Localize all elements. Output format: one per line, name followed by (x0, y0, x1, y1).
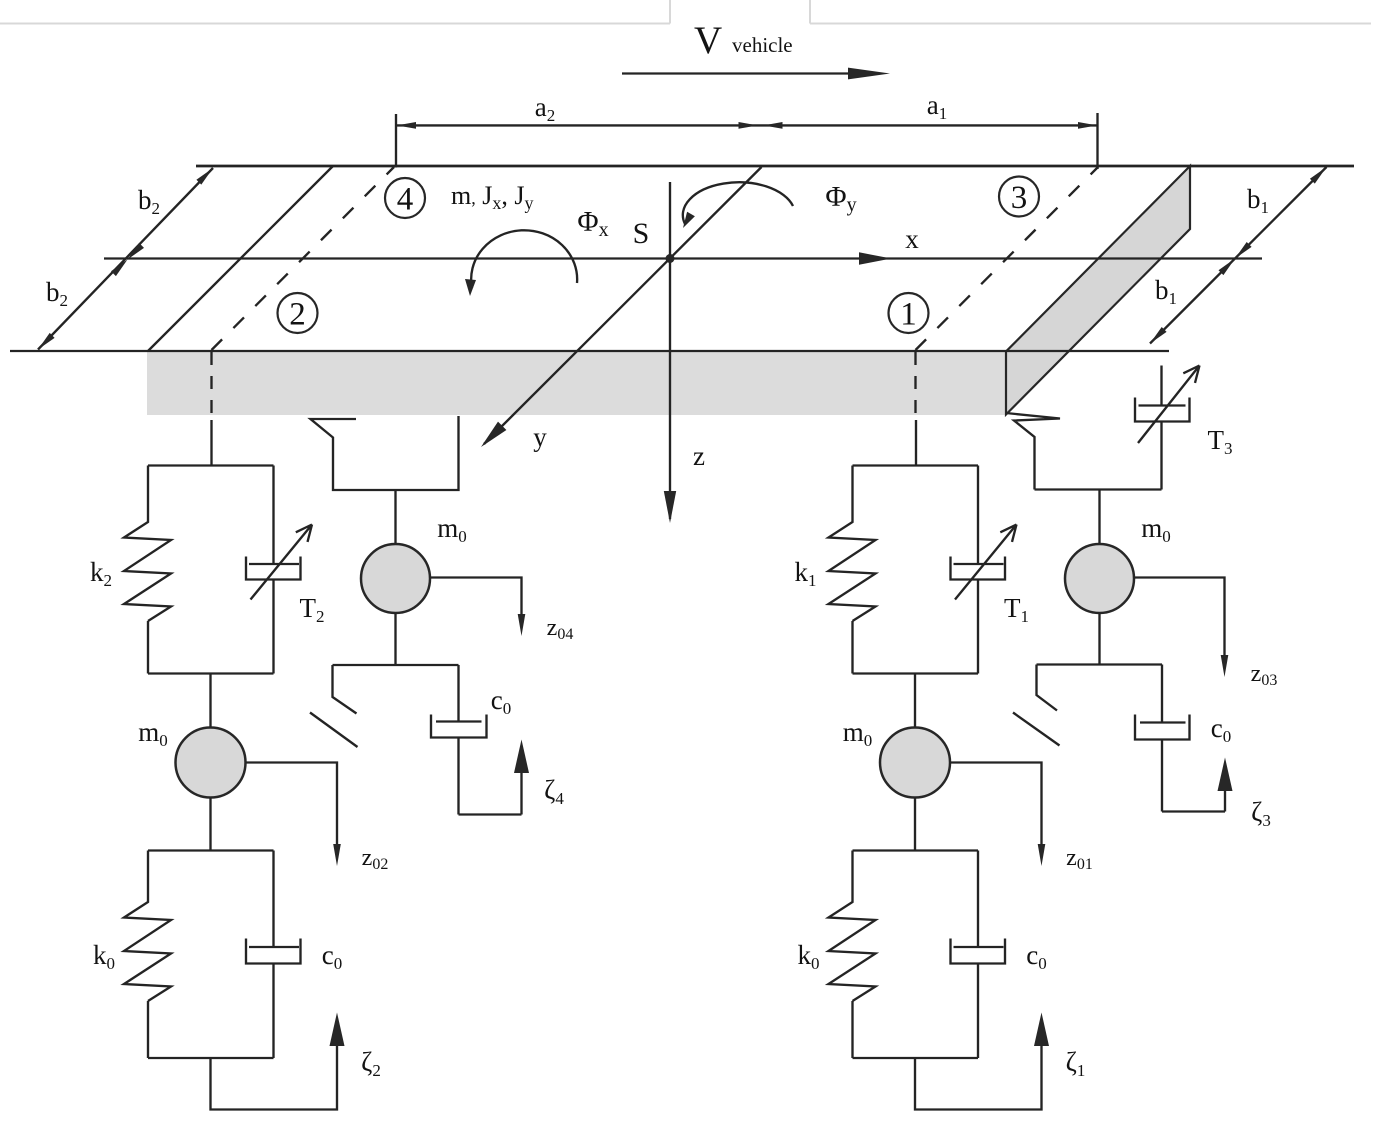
svg-text:k0: k0 (93, 940, 115, 973)
svg-text:z03: z03 (1251, 661, 1278, 689)
wheel 3 wire mass to tire assembly (1098, 613, 1100, 665)
svg-text:m0: m0 (437, 513, 467, 546)
node S (center of mass) (633, 217, 675, 263)
spring k2 (124, 466, 171, 622)
wheel position circle 3 (999, 177, 1039, 217)
svg-text:c0: c0 (1211, 713, 1231, 746)
wheel 1 wire mass to lower box (914, 798, 916, 851)
wheel 1 lower box frame (853, 851, 979, 1059)
svg-text:a1: a1 (927, 90, 947, 123)
mass m0 (wheel 4) (361, 513, 467, 613)
velocity arrow (622, 68, 890, 80)
wheel 2 upper box frame (148, 466, 274, 674)
svg-text:z01: z01 (1066, 845, 1093, 873)
damper c0 (wheel 1) (951, 851, 1047, 1059)
svg-text:ζ3: ζ3 (1251, 797, 1271, 830)
svg-text:y: y (533, 422, 547, 452)
plate bottom edge (10, 350, 1169, 352)
label T3 (1208, 425, 1233, 458)
spring k0 (wheel 2) (124, 851, 171, 1002)
damper c0 (wheel 4) (431, 665, 511, 815)
svg-text:T1: T1 (1004, 593, 1029, 626)
svg-text:z04: z04 (547, 615, 574, 643)
dimension b1 (1150, 167, 1327, 344)
svg-text:vehicle: vehicle (732, 33, 793, 57)
wheel 4 road break symbol (310, 665, 358, 747)
rotation arc phi-x (465, 206, 609, 296)
plate middle line (x axis line) (104, 257, 1262, 259)
wheel 2 wire mass to lower box (209, 798, 211, 851)
label k0 (wheel 2) (93, 940, 115, 973)
svg-text:x: x (905, 224, 919, 254)
label k0 (wheel 1) (798, 940, 820, 973)
svg-text:z02: z02 (362, 845, 389, 873)
svg-text:b1: b1 (1155, 275, 1177, 308)
svg-text:m0: m0 (1141, 513, 1171, 546)
wheel 2 strut wire (210, 420, 212, 466)
damper c0 (wheel 3) (1135, 665, 1231, 812)
wheel 1 upper box frame (853, 466, 979, 674)
label m,Jx,Jy (451, 181, 533, 213)
svg-text:2: 2 (289, 297, 306, 333)
label T1 (1004, 593, 1029, 626)
svg-text:m0: m0 (843, 717, 873, 750)
wheel 4 tire crossbar (333, 664, 459, 666)
svg-text:b1: b1 (1247, 184, 1269, 217)
svg-text:m, Jx, Jy: m, Jx, Jy (451, 181, 533, 213)
label a1 (927, 90, 947, 123)
wheel 4 hanger bracket (311, 416, 459, 490)
wheel position circle 1 (889, 293, 929, 333)
label k1 (795, 557, 817, 590)
rotation arc phi-y (683, 181, 857, 228)
damper c0 (wheel 2) (246, 851, 342, 1059)
svg-text:k1: k1 (795, 557, 817, 590)
svg-text:T2: T2 (300, 593, 325, 626)
svg-text:b2: b2 (46, 277, 68, 310)
spring k0 (wheel 1) (829, 851, 876, 1002)
svg-text:T3: T3 (1208, 425, 1233, 458)
displacement arrow z01 (950, 763, 1093, 874)
label k2 (90, 557, 112, 590)
excitation input zeta4 (459, 740, 565, 815)
dashed track line wheels 1-3 (916, 167, 1099, 420)
wheel 1 wire box to mass (914, 674, 916, 729)
wheel 4 wire bracket to mass (394, 490, 396, 545)
wheel 3 tire crossbar (1037, 663, 1163, 665)
damper T3 (1135, 366, 1200, 490)
wheel 2 wire box to mass (209, 674, 211, 729)
label V vehicle (694, 19, 793, 62)
displacement arrow z04 (430, 578, 573, 644)
svg-text:V: V (694, 19, 722, 62)
svg-text:c0: c0 (1026, 940, 1046, 973)
svg-text:a2: a2 (535, 92, 555, 125)
excitation input zeta2 (211, 1013, 381, 1110)
wheel 3 road break symbol lower (1013, 665, 1060, 746)
svg-text:Φx: Φx (577, 206, 608, 241)
svg-text:k2: k2 (90, 557, 112, 590)
wheel 3 wire bracket to mass (1098, 490, 1100, 546)
svg-text:m0: m0 (138, 717, 168, 750)
wheel position circle 2 (278, 293, 318, 333)
dimension b2 (38, 168, 213, 350)
wheel position circle 4 (385, 178, 425, 218)
dimension line a2/a1 (396, 113, 1098, 169)
label T2 (300, 593, 325, 626)
top border frame (0, 0, 1371, 24)
label a2 (535, 92, 555, 125)
wheel 3 crossbar upper (1035, 488, 1162, 490)
damper T1 (951, 466, 1017, 674)
svg-text:1: 1 (900, 297, 917, 333)
svg-text:Φy: Φy (825, 181, 856, 216)
svg-text:k0: k0 (798, 940, 820, 973)
axis x arrow (859, 224, 919, 265)
slab front face (gray bar) (147, 352, 1006, 416)
svg-text:ζ1: ζ1 (1066, 1047, 1086, 1080)
mass m0 (wheel 2) (138, 717, 245, 798)
svg-text:ζ2: ζ2 (361, 1047, 381, 1080)
displacement arrow z02 (246, 763, 389, 874)
wheel 2 lower box frame (148, 851, 274, 1059)
plate top edge (196, 165, 1354, 168)
spring k1 (829, 466, 876, 622)
excitation input zeta3 (1162, 758, 1271, 831)
excitation input zeta1 (915, 1013, 1085, 1110)
axis z (664, 182, 705, 523)
svg-text:S: S (633, 217, 650, 250)
svg-text:c0: c0 (322, 940, 342, 973)
wheel 3 road break symbol upper (1006, 413, 1060, 490)
axis y (481, 167, 762, 452)
svg-text:b2: b2 (138, 185, 160, 218)
svg-text:z: z (693, 441, 705, 471)
mass m0 (wheel 3) (1065, 513, 1171, 613)
plate left slant edge (148, 166, 333, 351)
wheel 4 wire mass to tire assembly (394, 613, 396, 665)
mass m0 (wheel 1) (843, 717, 950, 798)
svg-text:3: 3 (1011, 180, 1028, 216)
svg-text:ζ4: ζ4 (544, 775, 564, 808)
svg-text:4: 4 (397, 182, 414, 218)
svg-text:c0: c0 (491, 685, 511, 718)
dashed track line wheels 2-4 (212, 167, 395, 420)
displacement arrow z03 (1134, 578, 1277, 690)
damper T2 (246, 466, 312, 674)
slab right end face (prism) (1006, 166, 1190, 415)
wheel 1 strut wire (915, 420, 917, 466)
